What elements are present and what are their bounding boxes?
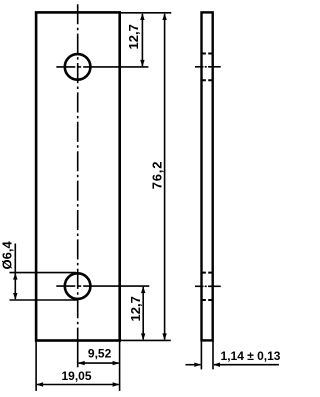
svg-text:19,05: 19,05 bbox=[61, 369, 91, 383]
svg-text:12,7: 12,7 bbox=[126, 24, 141, 49]
svg-text:76,2: 76,2 bbox=[149, 161, 164, 190]
dimension 76,2 bbox=[120, 14, 171, 340]
dimension 9,52 bbox=[79, 341, 120, 391]
svg-text:1,14 ± 0,13: 1,14 ± 0,13 bbox=[221, 349, 281, 363]
side view top hole centerline bbox=[195, 66, 221, 68]
dimension 12,7 bottom bbox=[142, 287, 144, 339]
bottom hole bbox=[65, 273, 91, 299]
vertical centerline bbox=[77, 4, 79, 367]
dimension Ø6,4 bbox=[10, 244, 78, 301]
dimension 1,14 ± 0,13 bbox=[186, 341, 279, 369]
svg-text:Ø6,4: Ø6,4 bbox=[0, 241, 15, 270]
dimension 12,7 top bbox=[120, 13, 172, 66]
top hole bbox=[65, 54, 91, 80]
front view plate outline bbox=[36, 12, 120, 340]
side view top hole hidden lines bbox=[202, 54, 212, 81]
side view bottom hole hidden lines bbox=[202, 273, 212, 300]
bottom hole horizontal centerline bbox=[56, 285, 149, 287]
svg-text:9,52: 9,52 bbox=[88, 346, 112, 360]
side view outline bbox=[202, 12, 213, 340]
top hole horizontal centerline bbox=[56, 66, 148, 68]
dimension 19,05 bbox=[36, 341, 119, 391]
side view bottom hole centerline bbox=[195, 285, 221, 287]
svg-text:12,7: 12,7 bbox=[128, 296, 143, 321]
